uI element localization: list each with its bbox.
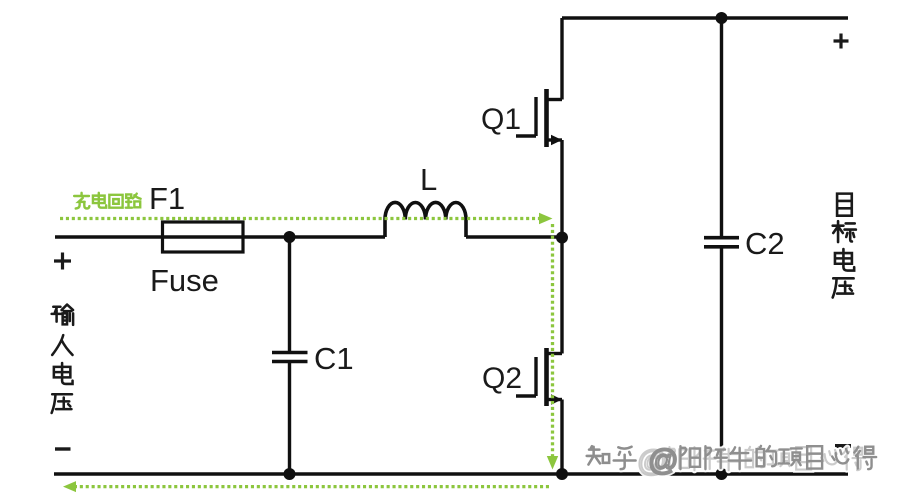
wire bottom common <box>54 472 848 475</box>
polarity plus input <box>54 253 71 270</box>
Q1 source arrow <box>551 135 562 145</box>
wire input top (mid rail) <box>55 235 385 238</box>
fuse F1 body <box>163 222 244 252</box>
inductor L <box>385 202 466 237</box>
watermark zhihu text <box>587 446 636 469</box>
junction node bottom C2 <box>716 468 728 480</box>
watermark author text <box>648 444 876 477</box>
watermark glow <box>587 444 876 478</box>
polarity plus output <box>834 34 849 49</box>
svg-text:Q1: Q1 <box>481 103 521 136</box>
Q2 source arrow <box>551 394 562 404</box>
label input-voltage vertical text <box>52 305 73 413</box>
polarity minus output <box>835 444 851 448</box>
capacitor C2 plates <box>704 238 739 247</box>
junction node top C2 <box>716 12 728 24</box>
svg-text:Fuse: Fuse <box>150 263 219 298</box>
svg-text:Q2: Q2 <box>482 362 522 395</box>
svg-text:C2: C2 <box>745 226 785 261</box>
charge path dotted arrow vertical <box>551 224 554 457</box>
junction node bottom C1 <box>284 468 296 480</box>
label target-voltage vertical text <box>833 194 856 298</box>
watermark ghost copy <box>637 445 865 478</box>
svg-text:F1: F1 <box>149 181 185 216</box>
charge path dotted arrow bottom <box>76 485 549 488</box>
transistor Q1 <box>516 89 562 147</box>
capacitor C1 plates <box>272 353 308 362</box>
svg-text:C1: C1 <box>314 341 354 376</box>
charge path dotted arrow top <box>60 217 539 220</box>
svg-text:L: L <box>420 162 437 197</box>
transistor Q2 <box>516 348 562 406</box>
wire switch rail <box>560 18 563 474</box>
wire output top <box>562 16 848 19</box>
wire mid right of inductor <box>466 235 562 238</box>
junction node bottom rail <box>556 468 568 480</box>
polarity minus input <box>55 447 71 450</box>
junction node fuse-C1 <box>284 231 296 243</box>
wire C2 vertical <box>720 18 723 474</box>
wire C1 vertical <box>288 237 291 474</box>
label charge-loop green text <box>74 193 140 209</box>
junction node inductor-rail <box>556 232 568 244</box>
